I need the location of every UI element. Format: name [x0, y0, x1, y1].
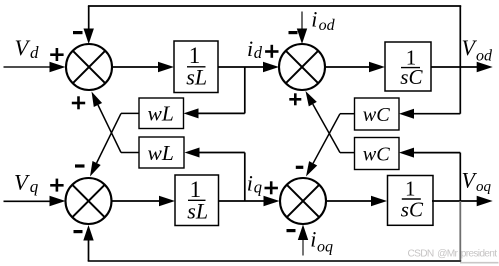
- sign minus iod into S2: [289, 31, 298, 34]
- svg-text:wL: wL: [148, 141, 174, 165]
- summer S2: [279, 44, 325, 90]
- arrow into wL1: [184, 108, 199, 118]
- wire wC1 diagonal to S4: [306, 114, 340, 177]
- arrow into B2: [159, 196, 175, 206]
- block B4 1/sC: [388, 176, 434, 226]
- label iq: [247, 171, 262, 197]
- sign minus feedback into S3: [74, 230, 83, 233]
- svg-text:oq: oq: [476, 179, 492, 195]
- wire wL2 diagonal to S1: [92, 92, 122, 153]
- arrow into B3: [369, 62, 385, 72]
- svg-text:wC: wC: [363, 104, 390, 126]
- summer S3: [66, 178, 112, 224]
- arrow into B4: [371, 196, 387, 206]
- wire wL1 input from id tap: [198, 112, 245, 114]
- sign plus iq into S4: [265, 181, 278, 194]
- input iod arrow: [297, 12, 307, 45]
- wire wC2 diagonal to S2: [306, 91, 341, 153]
- label ioq: [310, 227, 333, 256]
- label id: [247, 36, 263, 62]
- label Voq: [462, 168, 492, 195]
- arrow into wC2: [399, 148, 414, 158]
- node Vod feedback tap vertical: [459, 6, 461, 114]
- svg-text:sL: sL: [187, 198, 208, 223]
- wire top feedback: [88, 5, 461, 7]
- input ioq arrow: [298, 225, 308, 256]
- svg-text:od: od: [476, 47, 493, 64]
- label Vod: [462, 35, 494, 64]
- block wL2: [139, 137, 184, 168]
- svg-text:V: V: [14, 169, 30, 194]
- wire S3 to block B2: [112, 200, 162, 202]
- sign plus id into S2: [265, 45, 278, 58]
- wire Vd input: [4, 66, 52, 68]
- block B1 1/sL: [174, 41, 218, 93]
- svg-text:i: i: [247, 171, 253, 196]
- svg-text:sC: sC: [401, 197, 424, 221]
- svg-text:q: q: [254, 178, 262, 197]
- wire wC1 output stub: [340, 113, 355, 115]
- wire B4 to Voq output: [432, 200, 478, 202]
- svg-text:q: q: [30, 177, 39, 196]
- node Voq feedback tap vertical: [459, 153, 461, 201]
- block B3 1/sC: [385, 42, 431, 91]
- block wC1: [355, 98, 400, 130]
- arrow Vod output: [477, 62, 493, 72]
- wire B3 to Vod output: [431, 66, 478, 68]
- sign minus wL1 into S3: [75, 164, 85, 167]
- wire wC2 output stub: [340, 152, 355, 154]
- sign minus wC1 into S4: [296, 166, 304, 169]
- block wC2: [355, 138, 400, 170]
- sign plus Vd into S1: [50, 48, 63, 61]
- summer S1: [66, 44, 112, 90]
- sign plus wC2 into S2: [289, 93, 301, 105]
- arrow into wC1: [399, 109, 414, 119]
- sign plus wL2 into S1: [72, 96, 85, 109]
- wire wC2 input from Voq tap: [413, 152, 460, 154]
- watermark gray line: [460, 262, 499, 264]
- wire wL1 output stub: [121, 112, 139, 114]
- wire S1 to block B1: [112, 66, 160, 68]
- wire wL2 input from iq tap: [199, 152, 245, 154]
- wire bottom feedback: [88, 260, 462, 262]
- label iod: [311, 6, 335, 34]
- wire B2 to summer S4: [219, 200, 265, 202]
- arrow into summer S1: [50, 62, 66, 72]
- svg-text:i: i: [311, 6, 317, 31]
- block B2 1/sL: [175, 175, 219, 226]
- node id tap: [244, 67, 246, 113]
- svg-text:V: V: [15, 35, 31, 60]
- label Vq: [14, 169, 39, 196]
- svg-text:d: d: [30, 43, 39, 62]
- wire wL1 diagonal to S3: [90, 113, 121, 176]
- wire S4 to block B4: [327, 200, 374, 202]
- wire wL2 output stub: [121, 152, 139, 154]
- arrow into S4: [264, 196, 280, 206]
- arrow Voq output: [477, 196, 493, 206]
- wire bottom feedback rise into S3: [83, 225, 93, 261]
- svg-text:sL: sL: [186, 64, 207, 89]
- sign minus ioq into S4: [287, 229, 296, 232]
- wire wC1 input from Vod tap: [413, 113, 460, 115]
- block wL1: [139, 98, 184, 129]
- svg-text:oq: oq: [317, 239, 333, 256]
- svg-text:i: i: [310, 227, 316, 252]
- svg-text:i: i: [247, 36, 253, 61]
- arrow into B1: [158, 62, 174, 72]
- sign minus feedback into S1: [73, 31, 83, 34]
- arrow into S2: [263, 62, 279, 72]
- svg-text:wL: wL: [148, 102, 174, 126]
- wire top feedback drop into S1: [84, 6, 94, 44]
- sign plus Vq into S3: [50, 179, 63, 192]
- svg-text:d: d: [254, 43, 263, 62]
- wire S2 to block B3: [325, 66, 371, 68]
- node iq tap: [244, 153, 246, 202]
- summer S4: [280, 178, 326, 224]
- wire Vq input: [4, 200, 52, 202]
- label Vd: [15, 35, 40, 62]
- svg-text:CSDN @Mr president: CSDN @Mr president: [408, 249, 498, 260]
- svg-text:sC: sC: [400, 65, 423, 89]
- svg-text:wC: wC: [363, 144, 390, 166]
- wire B1 to summer S2: [218, 66, 264, 68]
- arrow into wL2: [185, 148, 200, 158]
- arrow into S3: [50, 196, 66, 206]
- svg-text:od: od: [319, 17, 336, 34]
